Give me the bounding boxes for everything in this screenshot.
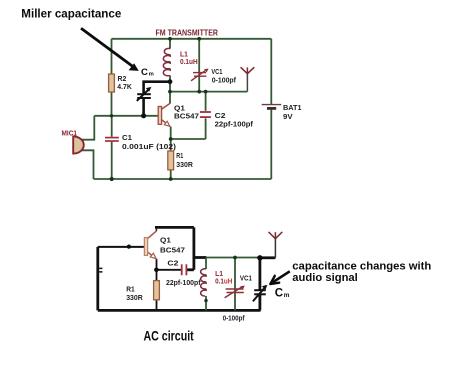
svg-text:BAT1: BAT1	[283, 103, 302, 112]
svg-text:Miller capacitance: Miller capacitance	[21, 9, 121, 21]
svg-text:audio signal: audio signal	[292, 272, 358, 284]
svg-text:BC547: BC547	[174, 111, 199, 120]
svg-text:capacitance changes with: capacitance changes with	[292, 261, 431, 273]
svg-text:MIC1: MIC1	[62, 128, 78, 137]
svg-text:BC547: BC547	[160, 246, 185, 255]
svg-text:m: m	[284, 292, 290, 299]
svg-text:VC1: VC1	[240, 274, 252, 283]
svg-text:C: C	[141, 67, 148, 78]
svg-text:R1: R1	[176, 151, 183, 160]
svg-text:m: m	[149, 72, 154, 78]
svg-text:0.1uH: 0.1uH	[180, 57, 198, 66]
svg-text:0.1uH: 0.1uH	[215, 276, 232, 285]
svg-text:Q1: Q1	[160, 236, 171, 245]
svg-text:AC circuit: AC circuit	[144, 329, 195, 344]
svg-text:C2: C2	[167, 259, 178, 268]
svg-text:22pf-100pf: 22pf-100pf	[166, 278, 201, 287]
svg-text:330R: 330R	[176, 160, 193, 169]
svg-text:0-100pf: 0-100pf	[212, 76, 237, 85]
svg-text:22pf-100pf: 22pf-100pf	[215, 120, 254, 129]
svg-text:4.7K: 4.7K	[117, 82, 132, 91]
svg-text:C: C	[275, 287, 284, 300]
svg-text:0-100pf: 0-100pf	[223, 314, 245, 323]
svg-text:0.001uF (102): 0.001uF (102)	[122, 142, 177, 151]
svg-text:FM TRANSMITTER: FM TRANSMITTER	[156, 28, 219, 37]
svg-text:C1: C1	[122, 133, 132, 142]
svg-text:330R: 330R	[126, 293, 143, 302]
svg-text:9V: 9V	[283, 112, 293, 121]
